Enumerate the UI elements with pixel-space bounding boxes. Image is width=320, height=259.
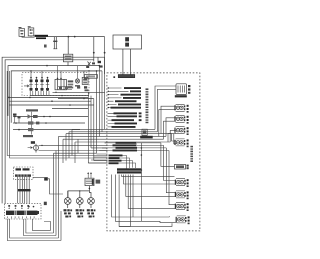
wire: left feed 4 bbox=[11, 71, 102, 123]
wire: left feed 3 bbox=[8, 66, 99, 116]
harness label column group1 bbox=[108, 87, 142, 109]
infinite switch group 2 bbox=[55, 78, 73, 90]
bottom mid vertical drops from label bar bbox=[122, 175, 177, 227]
bottom mid loops inside dashed box bbox=[112, 175, 178, 227]
transformer bbox=[68, 172, 100, 198]
bottom-left small dashed box bbox=[14, 167, 34, 179]
wires bottom right connect bbox=[141, 169, 143, 171]
right comp C7 solenoid bbox=[175, 179, 189, 187]
component row B bbox=[13, 114, 88, 119]
right comp C3 solenoid bbox=[174, 115, 188, 123]
power terminal block dashed bbox=[4, 203, 41, 219]
rotated label MACHINE CONTROL bbox=[146, 88, 149, 123]
machine compartment dashed box bbox=[107, 73, 200, 231]
wire: left outer feed N bbox=[5, 60, 94, 204]
component box right of rows bbox=[140, 129, 153, 138]
label B2B6 ribbon bbox=[35, 35, 49, 39]
wires: left feeds turning right at mid bbox=[7, 71, 107, 158]
mark near terminal box bbox=[44, 202, 47, 205]
right comp C10 solenoid bbox=[176, 216, 190, 224]
clock box bbox=[113, 35, 142, 49]
oven light motor circle bbox=[28, 141, 108, 152]
right comp C5 solenoid bbox=[174, 139, 188, 147]
console dashed box bbox=[22, 73, 89, 96]
harness bundle down-left bbox=[18, 177, 30, 204]
bake broil lamps bbox=[64, 190, 94, 208]
wire: drop pair P3 below label bbox=[53, 37, 57, 49]
right comp C8 solenoid bbox=[175, 191, 189, 199]
bottom label bar bbox=[117, 168, 142, 173]
right comp C4 solenoid bbox=[174, 127, 188, 135]
right comp C2 solenoid bbox=[174, 104, 188, 112]
harness label column group2 bbox=[108, 112, 142, 128]
rotated label right column bbox=[190, 146, 193, 162]
harness label group4 bbox=[109, 155, 136, 169]
harness label group3 bbox=[108, 142, 177, 221]
thermal fuse box bbox=[63, 37, 72, 66]
right comp C9 solenoid bbox=[175, 203, 189, 211]
lower switch row under console bbox=[58, 86, 89, 91]
ladder horizontals bbox=[54, 129, 177, 163]
wire: top feed from plugs to right bbox=[22, 36, 105, 38]
wire: left outer feed L1 bbox=[2, 57, 105, 203]
sensor stack spine bbox=[31, 112, 33, 135]
node N label bbox=[44, 45, 47, 48]
right vertical bundle bbox=[155, 86, 176, 142]
lamp labels bbox=[64, 209, 96, 217]
pilot lamp group bbox=[75, 77, 88, 86]
label oven sensor text bbox=[26, 109, 38, 111]
power loop wires bottom bbox=[7, 219, 61, 241]
node a mark bbox=[113, 76, 115, 78]
door latch motor M1 bbox=[175, 84, 191, 98]
junction mark right of fuse box bbox=[44, 177, 48, 180]
connector cluster mid bbox=[80, 57, 105, 78]
wire: top feed corner down right side of clock bbox=[93, 37, 95, 62]
bundle label bbox=[18, 189, 31, 191]
component row D bbox=[13, 128, 80, 137]
connector bar bbox=[118, 75, 134, 78]
plug P2 top-left bbox=[28, 26, 34, 36]
surface switch bank bbox=[24, 66, 84, 96]
ladder verticals from top rows bbox=[30, 37, 104, 241]
wire: clock to connector bar bbox=[123, 49, 131, 75]
sensor connector marks bbox=[13, 114, 17, 116]
bus lines left-middle bbox=[8, 92, 104, 109]
component row C bbox=[13, 121, 85, 124]
door latch switch S6 bbox=[175, 164, 189, 169]
plug P1 top-left bbox=[19, 27, 25, 36]
